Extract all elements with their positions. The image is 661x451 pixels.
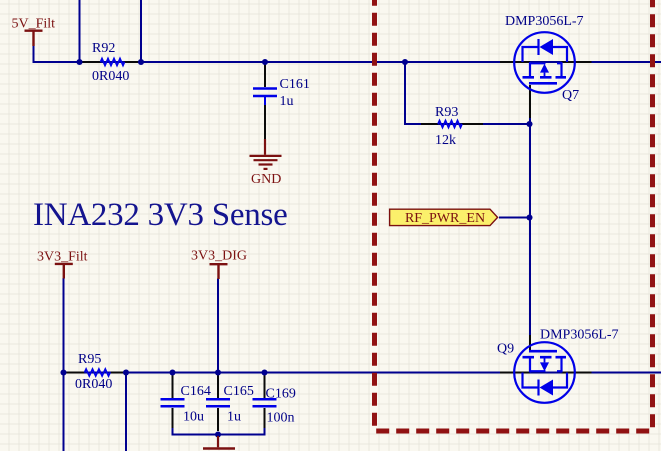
svg-text:R93: R93 [435,105,458,120]
svg-text:Q9: Q9 [497,342,514,357]
svg-text:C164: C164 [181,384,211,399]
svg-text:3V3_Filt: 3V3_Filt [37,249,88,264]
svg-text:C161: C161 [280,77,310,92]
svg-text:C169: C169 [266,387,296,402]
svg-text:1u: 1u [280,94,294,109]
svg-text:1u: 1u [227,410,241,425]
wire gate line vertical x530 [529,86,531,340]
svg-text:R95: R95 [78,352,101,367]
wire bottom cap rail [173,427,265,435]
pin R95 leads (black) [66,372,124,374]
port RF_PWR_EN [390,209,498,225]
svg-text:0R040: 0R040 [75,377,112,392]
svg-text:R92: R92 [92,41,115,56]
svg-text:Q7: Q7 [562,88,579,103]
svg-text:C165: C165 [224,384,254,399]
svg-text:100n: 100n [267,411,295,426]
capacitor C165 plates [206,399,230,406]
wire main top horizontal with 5V_Filt corner [34,45,661,63]
pin C165 leads (black) [217,375,219,431]
pin R92 leads (black) [82,61,139,63]
wire 3V3_DIG vertical [217,279,219,373]
wire RF_PWR_EN to gate line [499,217,530,219]
ground below C165 rail (cut off at bottom) [203,436,235,449]
pin Q7 gate lead (black) [529,85,531,118]
resistor R95 zigzag [85,369,111,376]
wire vertical into top edge right [140,0,142,62]
wire bottom main horizontal [64,372,661,374]
svg-text:INA232 3V3 Sense: INA232 3V3 Sense [33,197,287,233]
resistor R93 zigzag [438,121,462,128]
harness border dashed box [375,0,653,431]
pin C161 leads (black) [264,64,266,140]
capacitor C161 plates [253,89,277,97]
ground GND below C161 [250,139,282,169]
svg-text:12k: 12k [435,133,456,148]
wire branch down at x126 [125,373,127,451]
pin R93 leads (black) [421,123,483,125]
svg-text:10u: 10u [183,410,204,425]
svg-text:5V_Filt: 5V_Filt [12,16,56,31]
resistor R92 zigzag [101,59,125,66]
pin C169 leads (black) [264,375,266,428]
capacitor C169 plates [253,399,277,406]
wire R93 branch from node at x405 [405,61,530,124]
power port 3V3_DIG bar [210,264,228,279]
pin Q7 drain-source through line (black) [500,61,592,63]
power port 5V_Filt bar [25,31,43,46]
capacitor C164 plates [161,399,185,406]
svg-text:GND: GND [251,172,281,187]
svg-text:DMP3056L-7: DMP3056L-7 [505,14,584,29]
pin Q9 gate lead (black) [529,335,531,375]
pin C164 leads (black) [172,375,174,428]
svg-text:DMP3056L-7: DMP3056L-7 [540,328,619,343]
transistor Q9 (DMP3056L-7 P-MOSFET, mirrored) [514,342,575,403]
svg-text:0R040: 0R040 [92,69,129,84]
pin Q9 drain-source through line (black) [500,372,592,374]
svg-text:3V3_DIG: 3V3_DIG [191,249,247,264]
power port 3V3_Filt bar [55,264,73,279]
transistor Q7 (DMP3056L-7 P-MOSFET) [514,32,575,93]
svg-text:RF_PWR_EN: RF_PWR_EN [405,211,485,226]
wire 3V3_Filt vertical down to bottom edge [63,278,65,451]
junction node dots [60,59,532,438]
wire vertical into top edge left [79,0,81,62]
